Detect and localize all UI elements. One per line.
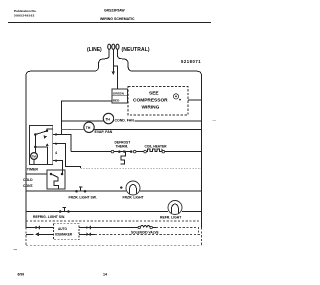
svg-text:5218071: 5218071: [181, 59, 201, 64]
svg-text:GREEN: GREEN: [113, 92, 125, 96]
svg-text:SOLENOID VALVE: SOLENOID VALVE: [131, 231, 159, 235]
icemaker right connector row1: [79, 226, 95, 230]
svg-text:REFRIG. LIGHT SW.: REFRIG. LIGHT SW.: [33, 215, 65, 219]
svg-text:WIRING SCHEMATIC: WIRING SCHEMATIC: [100, 17, 135, 21]
svg-text:Publication No.: Publication No.: [14, 9, 37, 13]
wire compressor to neutral rail: [188, 99, 202, 101]
freezer light bulb: [126, 181, 140, 195]
page margin tick left: [14, 248, 18, 250]
svg-text:TM: TM: [32, 154, 37, 158]
svg-text:4: 4: [55, 151, 57, 155]
freezer light row wire: [26, 190, 202, 192]
upper dashed boundary line: [26, 220, 202, 222]
right rail (neutral bus): [197, 71, 202, 227]
dashed return wire row2: [95, 234, 202, 236]
icemaker row 2 stub with arrow: [26, 232, 53, 236]
right rail dashed lower: [201, 228, 203, 246]
bottom dashed cabinet line: [26, 245, 202, 247]
svg-text:FRZR. LIGHT SW.: FRZR. LIGHT SW.: [69, 195, 97, 199]
compressor dashed box SEE COMPRESSOR WIRING: [128, 87, 188, 116]
svg-text:TH: TH: [86, 126, 91, 130]
wire red lead from timer junction to compressor box: [62, 101, 112, 135]
svg-text:COLD: COLD: [23, 178, 33, 182]
wire junction to defrost row: [62, 135, 71, 152]
svg-text:FRZR. LIGHT: FRZR. LIGHT: [123, 195, 145, 199]
freezer light switch: [75, 187, 86, 192]
svg-text:CONT.: CONT.: [23, 184, 34, 188]
freezer light terminal dot: [120, 186, 122, 188]
header rule: [8, 21, 211, 23]
left rail dashed lower: [25, 228, 27, 246]
svg-text:THERM.: THERM.: [116, 144, 129, 148]
timer motor TM: [31, 153, 38, 165]
svg-text:COIL HEATER: COIL HEATER: [145, 144, 168, 148]
svg-text:GRS23F5AW: GRS23F5AW: [104, 9, 125, 13]
page margin tick right: [213, 120, 217, 122]
wire timer terminal 2 to junction: [53, 134, 62, 136]
svg-text:COMPRESSOR: COMPRESSOR: [133, 98, 168, 104]
wire timer terminal 1 down and right (door liner): [53, 144, 81, 169]
defrost thermostat sensor stem: [121, 152, 126, 164]
power cord plug prong loops: [108, 44, 119, 49]
label COLD CONT.: [23, 178, 34, 188]
icemaker row 1 wire: [26, 227, 53, 229]
auto icemaker dashed box: [53, 224, 79, 240]
wire neutral-side from plug to right rail: [118, 49, 198, 71]
label DEFROST THERM.: [115, 140, 131, 148]
timer terminal numbers: [55, 132, 57, 163]
svg-text:REFR. LIGHT: REFR. LIGHT: [160, 216, 182, 220]
coil heater element: [144, 149, 165, 153]
refrig light switch: [59, 208, 70, 213]
overload protector symbol: [173, 94, 181, 101]
timer internal switch: [34, 129, 53, 139]
green ground wire to compressor: [113, 66, 117, 89]
svg-text:EVAP. FAN: EVAP. FAN: [95, 130, 113, 134]
ground prong wire with arrow to chassis: [112, 49, 115, 75]
evap fan motor: [84, 122, 94, 132]
cold control switch: [50, 173, 64, 189]
svg-text:COND. FAN: COND. FAN: [115, 119, 135, 123]
svg-text:AUTO: AUTO: [58, 227, 67, 231]
timer box: [30, 126, 53, 165]
cond fan row wire: [62, 120, 202, 122]
water valve solenoid coil: [138, 226, 152, 229]
left rail (line bus): [26, 71, 31, 227]
wire line rail to cold control: [26, 173, 47, 175]
cond fan motor: [103, 113, 113, 123]
cold control box: [47, 170, 65, 189]
svg-text:5995349562: 5995349562: [14, 13, 35, 17]
defrost row wire: [71, 151, 202, 153]
svg-text:RED: RED: [113, 99, 120, 103]
wire line-side from plug to left rail: [31, 49, 110, 71]
svg-text:ICEMAKER: ICEMAKER: [55, 232, 73, 236]
label COND. FAN: [114, 118, 135, 123]
icemaker plug connector top: [36, 226, 40, 230]
water solenoid row wire: [95, 227, 156, 229]
svg-text:TIMER: TIMER: [27, 167, 39, 171]
timer internal wiring: [34, 135, 49, 165]
refrigerator light row wire: [26, 211, 202, 213]
wire timer terminal 3 to cold control: [53, 160, 63, 174]
icemaker right connector row2: [79, 232, 95, 236]
long light wire to neutral rail: [80, 167, 201, 169]
svg-text:14: 14: [103, 273, 107, 277]
svg-text:WIRING: WIRING: [142, 105, 160, 111]
svg-text:(NEUTRAL): (NEUTRAL): [122, 47, 150, 53]
svg-text:6/99: 6/99: [18, 273, 25, 277]
green/red terminal box: [112, 89, 128, 103]
refrigerator light bulb: [168, 201, 182, 215]
defrost thermostat: [111, 150, 136, 153]
svg-text:TH: TH: [105, 117, 110, 121]
evap fan row wire: [62, 129, 84, 131]
svg-text:SEE: SEE: [149, 91, 159, 97]
header publication number text: [14, 9, 37, 18]
svg-text:(LINE): (LINE): [87, 47, 102, 53]
